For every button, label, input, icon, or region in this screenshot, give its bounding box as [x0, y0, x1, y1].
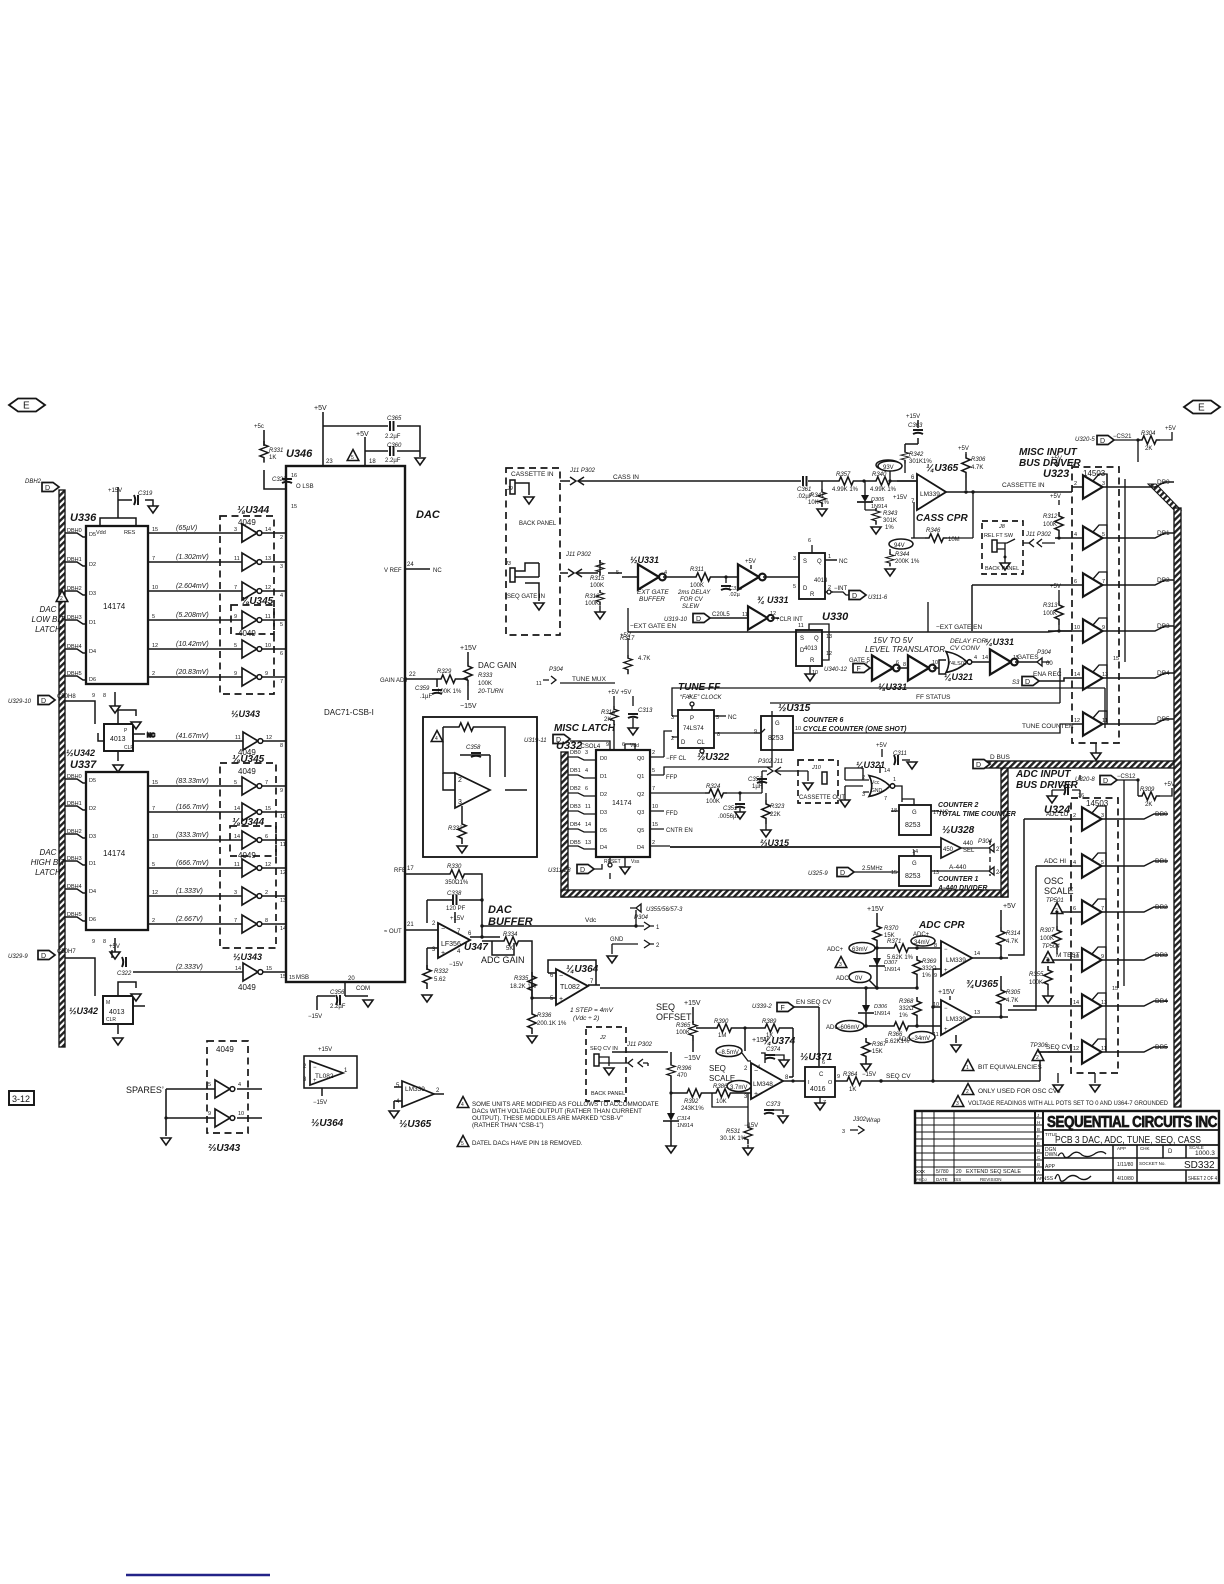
svg-text:DBH2: DBH2 [67, 586, 82, 592]
svg-text:LM339: LM339 [405, 1086, 425, 1093]
svg-text:+5V: +5V [1164, 782, 1175, 788]
svg-text:SCALE: SCALE [1044, 886, 1074, 896]
svg-text:DAC: DAC [40, 605, 57, 614]
svg-text:Q3: Q3 [637, 810, 644, 816]
svg-text:ONLY USED FOR OSC CVs: ONLY USED FOR OSC CVs [978, 1088, 1061, 1095]
svg-text:D1: D1 [89, 861, 96, 867]
svg-text:½U342: ½U342 [66, 748, 95, 758]
svg-text:D4: D4 [89, 889, 96, 895]
svg-text:DBH4: DBH4 [67, 884, 82, 890]
svg-text:2.2µF: 2.2µF [385, 434, 401, 440]
svg-text:C356: C356 [330, 990, 345, 996]
svg-text:9: 9 [92, 693, 95, 699]
svg-text:22: 22 [409, 672, 416, 678]
svg-text:R341: R341 [810, 493, 824, 499]
svg-text:14174: 14174 [103, 602, 126, 611]
svg-text:R309: R309 [1140, 787, 1155, 793]
svg-text:+: + [754, 1091, 758, 1098]
svg-text:24: 24 [407, 562, 414, 568]
svg-text:+5V: +5V [314, 405, 327, 412]
svg-text:1%: 1% [899, 1013, 908, 1019]
svg-text:10: 10 [932, 660, 938, 666]
svg-text:DB3: DB3 [570, 804, 581, 810]
svg-text:21: 21 [407, 922, 414, 928]
svg-text:BACK PANEL: BACK PANEL [985, 566, 1019, 572]
svg-text:DB4: DB4 [570, 822, 581, 828]
svg-text:P304: P304 [549, 667, 564, 673]
svg-text:P302 J11: P302 J11 [758, 759, 783, 765]
svg-text:−: − [944, 947, 948, 953]
svg-text:MISC INPUT: MISC INPUT [1019, 447, 1078, 458]
svg-text:R305: R305 [1006, 990, 1021, 996]
svg-text:−INT: −INT [834, 586, 848, 592]
svg-text:C374: C374 [766, 1047, 781, 1053]
svg-text:7: 7 [234, 585, 237, 591]
svg-text:7: 7 [652, 786, 655, 792]
svg-text:MSB: MSB [296, 975, 309, 981]
svg-text:−34mV: −34mV [911, 1036, 930, 1042]
svg-text:60: 60 [1046, 661, 1053, 667]
svg-text:BIT EQUIVALENCIES: BIT EQUIVALENCIES [978, 1064, 1042, 1071]
svg-text:15: 15 [152, 527, 158, 533]
svg-text:3: 3 [839, 962, 842, 968]
svg-text:DAC GAIN: DAC GAIN [478, 661, 517, 670]
svg-text:¾ U331: ¾ U331 [757, 595, 789, 605]
svg-text:D: D [803, 586, 808, 592]
svg-text:2K: 2K [1145, 446, 1152, 452]
svg-text:5: 5 [652, 768, 655, 774]
svg-text:DBH1: DBH1 [67, 557, 82, 563]
svg-text:DB0: DB0 [570, 750, 581, 756]
svg-text:⅛U345: ⅛U345 [232, 754, 265, 765]
svg-text:+5V: +5V [1165, 426, 1176, 432]
svg-text:13: 13 [974, 1010, 980, 1016]
svg-text:½U343: ½U343 [233, 952, 262, 962]
svg-text:14: 14 [912, 849, 918, 855]
svg-text:CASS IN: CASS IN [613, 474, 639, 481]
svg-text:SOCKET No.: SOCKET No. [1139, 1161, 1166, 1166]
svg-text:+15V: +15V [108, 488, 122, 494]
svg-text:DAC: DAC [488, 904, 513, 916]
svg-text:DB2: DB2 [1157, 577, 1170, 584]
svg-text:+5V: +5V [1050, 494, 1061, 500]
svg-text:J302: J302 [852, 1117, 867, 1123]
svg-text:¾U365: ¾U365 [966, 979, 999, 990]
svg-text:11: 11 [234, 556, 240, 562]
svg-text:−: − [313, 1065, 317, 1071]
svg-text:S: S [800, 636, 804, 642]
svg-text:−15V: −15V [460, 703, 477, 710]
svg-text:9: 9 [208, 1111, 211, 1117]
svg-text:DB3: DB3 [1155, 952, 1168, 959]
svg-text:APN: APN [1037, 1176, 1046, 1181]
svg-text:SEL: SEL [963, 848, 975, 854]
svg-text:(166.7mV): (166.7mV) [176, 804, 209, 811]
svg-text:6: 6 [280, 651, 283, 657]
svg-text:SEQ CV IN: SEQ CV IN [590, 1046, 618, 1052]
svg-text:8253: 8253 [905, 822, 921, 829]
svg-text:5K: 5K [506, 946, 513, 952]
svg-text:−EXT GATE EN: −EXT GATE EN [936, 624, 982, 631]
svg-text:LM339: LM339 [946, 957, 966, 964]
svg-text:D BUS: D BUS [990, 754, 1011, 761]
svg-text:½U343: ½U343 [231, 709, 260, 719]
svg-text:−FF CL: −FF CL [666, 756, 687, 762]
svg-text:½U371: ½U371 [800, 1052, 833, 1063]
svg-text:11: 11 [798, 623, 804, 629]
svg-text:⅔U343: ⅔U343 [208, 1143, 241, 1154]
svg-text:120 PF: 120 PF [446, 906, 466, 912]
svg-text:SEQ CV: SEQ CV [886, 1073, 911, 1080]
svg-text:(65µV): (65µV) [176, 525, 197, 532]
svg-text:13: 13 [265, 556, 271, 562]
svg-text:5: 5 [234, 780, 237, 786]
svg-text:100K: 100K [1029, 980, 1043, 986]
svg-text:10: 10 [152, 585, 158, 591]
svg-text:R332: R332 [448, 826, 463, 832]
svg-text:C311: C311 [893, 751, 907, 757]
svg-text:2: 2 [280, 535, 283, 541]
svg-text:P: P [690, 716, 694, 722]
svg-text:7: 7 [234, 918, 237, 924]
svg-text:XXX: XXX [916, 1169, 925, 1174]
svg-text:TP306: TP306 [1030, 1043, 1048, 1049]
svg-text:DB1: DB1 [570, 768, 581, 774]
svg-text:−: − [441, 926, 445, 933]
svg-text:2.5MHz: 2.5MHz [862, 866, 883, 872]
svg-text:D3: D3 [89, 591, 96, 597]
svg-text:“FAKE” CLOCK: “FAKE” CLOCK [680, 695, 723, 701]
svg-text:(20.83mV): (20.83mV) [176, 669, 209, 676]
svg-text:+5V: +5V [109, 944, 120, 950]
svg-text:COM: COM [356, 986, 370, 992]
svg-text:S3: S3 [1012, 680, 1020, 686]
svg-text:EXT GATE: EXT GATE [637, 589, 669, 596]
svg-text:3: 3 [842, 1129, 845, 1135]
svg-text:15V TO 5V: 15V TO 5V [873, 636, 913, 645]
svg-text:SCALE: SCALE [709, 1074, 735, 1083]
svg-text:+5V +5V: +5V +5V [608, 690, 631, 696]
svg-text:34mV: 34mV [914, 940, 930, 946]
svg-text:6: 6 [1074, 579, 1077, 585]
svg-text:PCB 3 DAC, ADC, TUNE, SEQ, CA: PCB 3 DAC, ADC, TUNE, SEQ, CASS [1055, 1134, 1201, 1146]
svg-text:−: − [944, 1006, 948, 1012]
svg-text:R370: R370 [884, 926, 899, 932]
svg-text:SEQ GATE IN: SEQ GATE IN [507, 594, 545, 600]
svg-text:ADC INPUT: ADC INPUT [1015, 769, 1071, 780]
svg-text:14: 14 [265, 527, 271, 533]
svg-text:100K: 100K [676, 1030, 690, 1036]
svg-text:10K: 10K [716, 1099, 727, 1105]
svg-text:4.99K 1%: 4.99K 1% [870, 487, 897, 493]
svg-text:13: 13 [1101, 1000, 1107, 1006]
svg-text:U330: U330 [822, 611, 849, 623]
svg-text:C313: C313 [638, 708, 653, 714]
svg-text:D2: D2 [89, 806, 96, 812]
svg-text:DB4: DB4 [1157, 670, 1170, 677]
svg-text:4013: 4013 [109, 1009, 125, 1016]
svg-text:Q: Q [817, 559, 822, 565]
svg-text:1N914: 1N914 [874, 1011, 890, 1017]
svg-text:R343: R343 [883, 511, 898, 517]
svg-text:E: E [1037, 1141, 1040, 1146]
svg-text:LM348: LM348 [753, 1081, 773, 1088]
svg-text:16: 16 [1078, 793, 1084, 799]
svg-text:R323: R323 [770, 804, 785, 810]
svg-text:9: 9 [837, 1074, 840, 1080]
svg-text:10: 10 [1074, 625, 1080, 631]
svg-text:3-12: 3-12 [12, 1094, 30, 1104]
svg-text:−CS12: −CS12 [1117, 774, 1136, 780]
svg-text:ADC HI: ADC HI [1044, 858, 1066, 865]
svg-text:R311: R311 [690, 567, 704, 573]
svg-text:100K: 100K [1043, 611, 1057, 617]
svg-text:RFB: RFB [394, 868, 406, 874]
svg-text:8: 8 [934, 943, 937, 949]
svg-text:4: 4 [435, 736, 438, 742]
svg-text:.02µ: .02µ [729, 592, 741, 598]
svg-text:C50H7: C50H7 [57, 949, 76, 955]
svg-text:NC: NC [433, 568, 442, 574]
svg-text:⅛U345: ⅛U345 [241, 596, 274, 607]
svg-text:93V: 93V [883, 465, 894, 471]
svg-text:4: 4 [461, 1102, 464, 1108]
svg-text:SEQ: SEQ [656, 1002, 675, 1012]
svg-text:¼U374: ¼U374 [763, 1036, 796, 1047]
svg-text:9: 9 [234, 671, 237, 677]
svg-text:D0: D0 [600, 756, 607, 762]
svg-text:R365: R365 [676, 1023, 691, 1029]
svg-text:2: 2 [652, 840, 655, 846]
svg-text:4049: 4049 [238, 851, 256, 860]
svg-text:11: 11 [265, 614, 271, 620]
svg-text:24: 24 [996, 870, 1003, 876]
svg-text:3: 3 [280, 564, 283, 570]
svg-text:4: 4 [664, 570, 667, 576]
svg-text:(RATHER THAN “CSB-1”): (RATHER THAN “CSB-1”) [472, 1122, 544, 1129]
svg-text:6: 6 [896, 660, 899, 666]
svg-text:LOW BIT: LOW BIT [32, 615, 66, 624]
svg-text:11: 11 [1102, 718, 1108, 724]
svg-text:17: 17 [407, 866, 414, 872]
svg-text:9: 9 [1102, 625, 1105, 631]
svg-text:4.7K: 4.7K [1006, 998, 1018, 1004]
svg-text:DBH0: DBH0 [67, 774, 82, 780]
svg-text:DB2: DB2 [1155, 904, 1168, 911]
svg-text:SOME UNITS ARE MODIFIED AS FOL: SOME UNITS ARE MODIFIED AS FOLLOWS TO AC… [472, 1101, 659, 1108]
svg-text:FOR CV: FOR CV [680, 597, 704, 603]
svg-text:1: 1 [893, 777, 896, 783]
svg-text:OUTPUT). THESE MODULES ARE MAR: OUTPUT). THESE MODULES ARE MARKED “CSB-V… [472, 1115, 623, 1122]
svg-text:D5: D5 [600, 828, 607, 834]
svg-text:Vdc: Vdc [585, 917, 597, 924]
svg-text:G: G [912, 861, 917, 867]
svg-text:DBH3: DBH3 [67, 615, 82, 621]
svg-text:5: 5 [461, 1141, 464, 1147]
svg-text:C365: C365 [387, 416, 402, 422]
svg-text:U355/56/57-3: U355/56/57-3 [646, 907, 683, 913]
svg-text:DWN: DWN [1045, 1152, 1057, 1158]
svg-text:5: 5 [793, 584, 796, 590]
svg-text:DB5: DB5 [570, 840, 581, 846]
svg-text:332Ω: 332Ω [899, 1006, 914, 1012]
svg-text:SPARES’: SPARES’ [126, 1085, 164, 1095]
svg-text:A: A [1037, 1169, 1040, 1174]
svg-text:3.7mV: 3.7mV [730, 1085, 747, 1091]
svg-text:LATCH: LATCH [35, 625, 61, 634]
svg-text:U340-12: U340-12 [824, 667, 848, 673]
svg-text:C: C [819, 1072, 824, 1078]
svg-text:R371: R371 [887, 939, 901, 945]
svg-text:440: 440 [963, 841, 974, 847]
svg-text:U329-9: U329-9 [8, 954, 28, 960]
svg-text:OFFSET: OFFSET [656, 1012, 692, 1022]
svg-text:ADC+: ADC+ [827, 947, 844, 953]
svg-text:R342: R342 [909, 452, 924, 458]
svg-text:7: 7 [1102, 579, 1105, 585]
svg-text:½U342: ½U342 [69, 1006, 98, 1016]
svg-text:Q2: Q2 [637, 792, 644, 798]
svg-text:DAC71-CSB-I: DAC71-CSB-I [324, 708, 374, 717]
svg-text:R330: R330 [447, 864, 462, 870]
svg-text:1µF: 1µF [752, 784, 763, 790]
svg-text:MISC LATCH: MISC LATCH [554, 723, 616, 734]
svg-text:74LS02: 74LS02 [948, 661, 967, 667]
svg-text:2: 2 [152, 918, 155, 924]
svg-text:11: 11 [235, 735, 241, 741]
svg-text:½U364: ½U364 [311, 1118, 344, 1129]
svg-text:R396: R396 [677, 1066, 692, 1072]
svg-text:REL FT SW: REL FT SW [984, 533, 1014, 539]
svg-text:7: 7 [823, 1100, 826, 1106]
svg-text:R344: R344 [895, 552, 910, 558]
svg-text:NC: NC [147, 733, 155, 739]
svg-text:R306: R306 [971, 457, 986, 463]
svg-text:12: 12 [1074, 718, 1080, 724]
svg-text:D5: D5 [89, 778, 96, 784]
svg-text:+15V: +15V [450, 916, 464, 922]
svg-text:TL082: TL082 [560, 984, 580, 991]
svg-text:2: 2 [652, 750, 655, 756]
svg-text:DBH5: DBH5 [67, 671, 82, 677]
svg-text:20-TURN: 20-TURN [477, 689, 504, 695]
svg-text:CHK: CHK [1140, 1146, 1150, 1151]
svg-text:15: 15 [265, 806, 271, 812]
svg-text:R389: R389 [762, 1019, 777, 1025]
svg-text:94V: 94V [894, 543, 905, 549]
svg-text:+15V: +15V [318, 1047, 332, 1053]
svg-text:4013: 4013 [804, 646, 818, 652]
svg-text:100K: 100K [585, 601, 599, 607]
svg-text:3: 3 [1101, 813, 1104, 819]
svg-text:8253: 8253 [905, 873, 921, 880]
svg-text:2: 2 [1073, 813, 1076, 819]
svg-text:9: 9 [280, 788, 283, 794]
svg-text:C338: C338 [447, 891, 462, 897]
svg-text:GATES: GATES [1017, 654, 1039, 661]
svg-text:8253: 8253 [768, 735, 784, 742]
svg-text:C358: C358 [466, 745, 481, 751]
svg-text:EN SEQ CV: EN SEQ CV [796, 999, 832, 1006]
svg-text:100K: 100K [590, 583, 604, 589]
svg-text:11: 11 [234, 862, 240, 868]
svg-text:R329: R329 [437, 669, 452, 675]
svg-text:DBH3: DBH3 [67, 856, 82, 862]
svg-text:J2: J2 [599, 1035, 606, 1041]
svg-text:470: 470 [677, 1073, 688, 1079]
svg-text:4013: 4013 [110, 736, 126, 743]
svg-text:R355: R355 [1029, 972, 1044, 978]
svg-text:F: F [1037, 1134, 1040, 1139]
svg-text:R340: R340 [872, 472, 887, 478]
svg-text:100K: 100K [706, 799, 720, 805]
svg-text:⅔U315: ⅔U315 [760, 838, 790, 848]
svg-text:8: 8 [265, 918, 268, 924]
svg-text:R364: R364 [843, 1072, 858, 1078]
svg-text:R312: R312 [1043, 514, 1058, 520]
svg-text:NC: NC [839, 559, 848, 565]
svg-text:4: 4 [238, 1082, 241, 1088]
svg-text:7: 7 [865, 662, 868, 668]
svg-text:BACK PANEL: BACK PANEL [519, 521, 557, 527]
svg-text:B: B [1037, 1162, 1040, 1167]
svg-text:9: 9 [234, 614, 237, 620]
svg-text:16: 16 [1068, 462, 1074, 468]
svg-text:+5V: +5V [356, 431, 369, 438]
svg-text:D: D [1168, 1149, 1173, 1155]
svg-text:SEQUENTIAL CIRCUITS INC: SEQUENTIAL CIRCUITS INC [1047, 1114, 1217, 1131]
svg-text:ADC: ADC [836, 976, 849, 982]
svg-text:15K: 15K [872, 1049, 883, 1055]
svg-text:10: 10 [152, 834, 158, 840]
svg-text:−8.5mV: −8.5mV [718, 1050, 739, 1056]
svg-text:GND: GND [610, 937, 624, 943]
svg-text:+5V: +5V [876, 743, 887, 749]
svg-text:TUNE COUNTER: TUNE COUNTER [1022, 723, 1074, 730]
svg-text:−: − [559, 973, 563, 980]
svg-text:12: 12 [152, 643, 158, 649]
svg-text:301K1%: 301K1% [909, 459, 932, 465]
svg-text:14: 14 [1074, 672, 1080, 678]
svg-text:+: + [441, 950, 445, 957]
svg-text:TL082: TL082 [315, 1073, 334, 1080]
svg-text:R392: R392 [684, 1099, 699, 1105]
svg-text:BUFFER: BUFFER [639, 596, 665, 603]
svg-text:−15V: −15V [313, 1100, 327, 1106]
svg-text:−15V: −15V [684, 1055, 701, 1062]
svg-text:D6: D6 [89, 917, 96, 923]
svg-text:30.1K 1%: 30.1K 1% [720, 1136, 747, 1142]
svg-text:DBH5: DBH5 [67, 912, 82, 918]
svg-text:9: 9 [934, 973, 937, 979]
svg-text:R: R [810, 658, 815, 664]
svg-text:DATE: DATE [936, 1177, 948, 1182]
svg-text:14174: 14174 [612, 800, 632, 807]
svg-text:14: 14 [585, 822, 591, 828]
svg-text:DATEL DACs HAVE PIN 18 REMOVED: DATEL DACs HAVE PIN 18 REMOVED. [472, 1140, 583, 1147]
svg-text:10: 10 [238, 1111, 244, 1117]
svg-text:DB1: DB1 [1157, 530, 1170, 537]
svg-text:(1.333V): (1.333V) [176, 888, 203, 895]
svg-text:⅛U344: ⅛U344 [232, 817, 265, 828]
svg-text:14174: 14174 [103, 849, 126, 858]
svg-text:1000.3: 1000.3 [1195, 1150, 1215, 1157]
svg-text:+5c: +5c [254, 424, 264, 430]
svg-text:D3: D3 [89, 834, 96, 840]
svg-text:12: 12 [265, 585, 271, 591]
svg-text:DBH1: DBH1 [67, 801, 82, 807]
svg-text:3: 3 [956, 1101, 959, 1107]
